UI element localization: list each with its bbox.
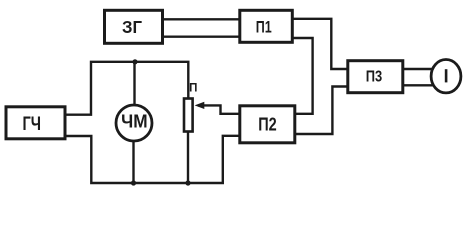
wire ЗГ to П1 upper line — [162, 18, 240, 20]
junction dot bottom rail at potentiometer stub — [185, 180, 190, 185]
svg-text:ГЧ: ГЧ — [23, 113, 42, 135]
potentiometer wiper arrowhead — [195, 102, 205, 109]
block П2 — [240, 106, 295, 143]
potentiometer П body — [184, 99, 193, 132]
wire П1 top output to П3 upper input — [292, 19, 348, 69]
svg-text:П3: П3 — [366, 69, 383, 86]
wire ГЧ lower output down to bottom rail across to П2 left lower — [65, 136, 240, 183]
wire П3 to meter I lower line — [403, 84, 436, 86]
block ГЧ (frequency generator) — [6, 107, 65, 139]
block П3 — [348, 61, 403, 93]
meter ЧМ (frequency meter circle) — [116, 105, 152, 141]
svg-text:П2: П2 — [258, 115, 277, 135]
wire ЧМ top stub — [133, 62, 135, 106]
svg-text:П1: П1 — [256, 18, 272, 37]
wire potentiometer wiper to П2 left upper — [198, 105, 240, 113]
wire П1 bottom output to П2 right upper — [292, 38, 313, 114]
wire ЗГ to П1 lower line — [162, 36, 240, 38]
svg-text:ЧМ: ЧМ — [121, 112, 148, 132]
wire ЧМ bottom stub — [132, 140, 134, 183]
junction dot bottom rail at ЧМ stub — [131, 180, 136, 185]
svg-text:П: П — [189, 82, 197, 94]
wire П2 right lower to П3 lower input — [294, 87, 348, 135]
block П1 — [240, 10, 292, 42]
svg-text:ЗГ: ЗГ — [122, 17, 142, 37]
junction dot top rail at ЧМ stub — [132, 59, 137, 64]
wire П3 to meter I upper line — [403, 68, 434, 70]
meter I (current meter circle) — [431, 59, 461, 92]
block ЗГ (master oscillator) — [105, 10, 163, 43]
wire potentiometer bottom stub — [187, 131, 189, 183]
wire ГЧ upper output up left rail and top rail to potentiometer — [65, 62, 188, 115]
